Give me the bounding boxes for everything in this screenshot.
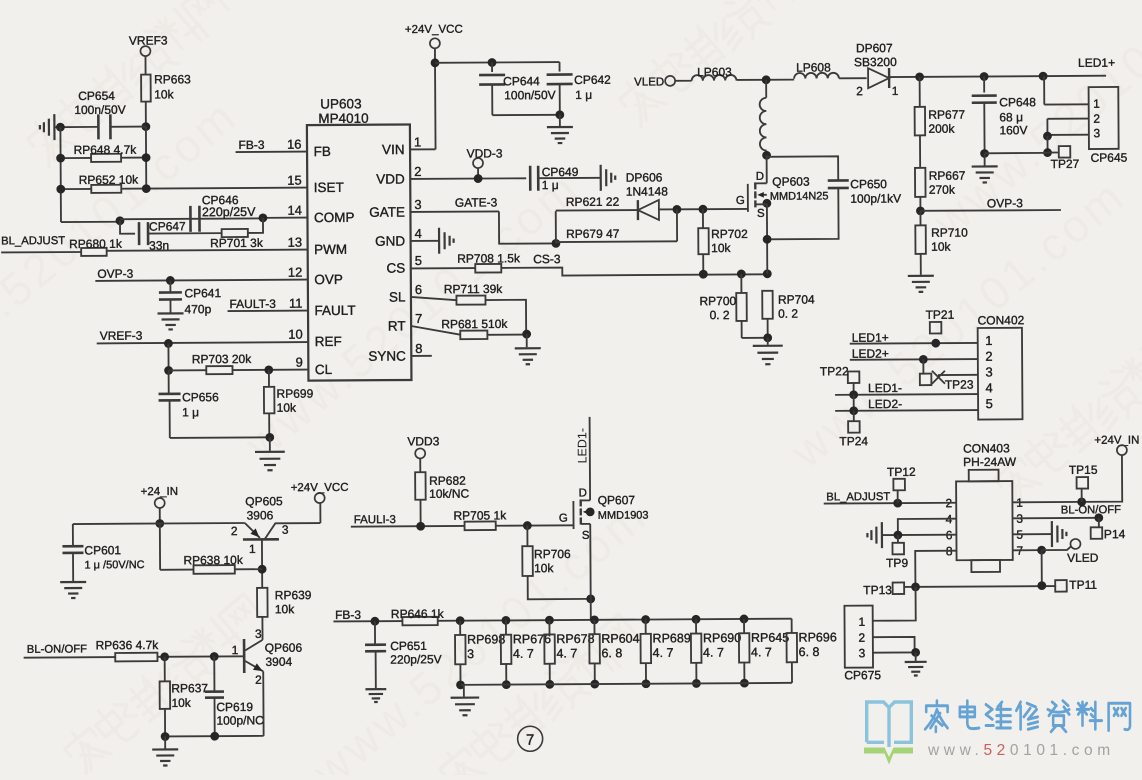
svg-text:TP22: TP22: [820, 364, 849, 378]
svg-text:CON403: CON403: [963, 441, 1010, 455]
svg-text:DP606: DP606: [626, 170, 663, 184]
svg-text:QP605: QP605: [245, 494, 283, 508]
svg-text:SL: SL: [389, 290, 406, 305]
svg-text:10k/NC: 10k/NC: [429, 487, 469, 501]
svg-text:P14: P14: [1104, 527, 1126, 541]
svg-text:CP654: CP654: [78, 89, 115, 103]
svg-text:RP679 47: RP679 47: [566, 227, 620, 241]
svg-text:RP703 20k: RP703 20k: [192, 352, 252, 366]
svg-text:4. 7: 4. 7: [513, 647, 534, 661]
svg-text:S: S: [582, 530, 590, 542]
svg-text:RP681 510k: RP681 510k: [441, 317, 508, 331]
svg-text:2: 2: [1093, 112, 1100, 126]
svg-text:VREF-3: VREF-3: [100, 329, 143, 343]
svg-text:BL_ADJUST: BL_ADJUST: [826, 491, 890, 503]
svg-text:CL: CL: [315, 362, 333, 377]
svg-text:100p/1kV: 100p/1kV: [850, 191, 901, 205]
svg-text:14: 14: [287, 203, 302, 218]
svg-text:RP680 1k: RP680 1k: [69, 237, 123, 251]
svg-text:10k: 10k: [171, 696, 191, 710]
svg-text:1: 1: [858, 615, 865, 629]
svg-text:RP706: RP706: [534, 547, 571, 561]
svg-text:RP698: RP698: [467, 632, 505, 646]
svg-text:S: S: [757, 208, 765, 220]
svg-text:D: D: [579, 487, 587, 499]
svg-text:RT: RT: [388, 319, 406, 334]
svg-text:10k: 10k: [711, 241, 731, 255]
svg-text:3: 3: [467, 647, 474, 661]
svg-text:100n/50V: 100n/50V: [74, 103, 125, 117]
svg-text:CP619: CP619: [216, 700, 253, 714]
svg-text:RP699: RP699: [276, 387, 313, 401]
svg-text:8: 8: [415, 341, 422, 356]
svg-text:RP690: RP690: [703, 631, 741, 645]
svg-text:4. 7: 4. 7: [556, 646, 577, 660]
svg-text:6: 6: [415, 282, 422, 297]
svg-text:TP27: TP27: [1051, 157, 1080, 171]
svg-text:PWM: PWM: [314, 242, 347, 257]
svg-text:MP4010: MP4010: [318, 111, 368, 126]
svg-text:100n/50V: 100n/50V: [504, 88, 555, 102]
svg-text:2: 2: [856, 84, 863, 98]
svg-text:CP656: CP656: [182, 390, 219, 404]
svg-text:200k: 200k: [928, 122, 955, 136]
svg-text:RP696: RP696: [798, 630, 836, 644]
svg-text:CP642: CP642: [574, 73, 611, 87]
svg-text:RP711 39k: RP711 39k: [444, 282, 504, 296]
svg-text:1 μ: 1 μ: [575, 88, 592, 102]
svg-text:RP701 3k: RP701 3k: [210, 236, 264, 250]
svg-text:UP603: UP603: [320, 96, 361, 111]
svg-text:QP606: QP606: [265, 641, 303, 655]
svg-text:GATE: GATE: [369, 205, 405, 220]
svg-text:1 μ /50V/NC: 1 μ /50V/NC: [84, 559, 144, 571]
svg-text:LP608: LP608: [796, 60, 831, 74]
svg-text:10k: 10k: [534, 561, 554, 575]
svg-text:CP649: CP649: [542, 165, 579, 179]
svg-text:1: 1: [985, 333, 992, 348]
svg-text:QP607: QP607: [598, 493, 636, 507]
svg-text:RP636 4.7k: RP636 4.7k: [96, 638, 160, 652]
svg-text:3: 3: [414, 197, 421, 212]
svg-text:2: 2: [414, 164, 421, 179]
svg-text:2: 2: [985, 349, 992, 364]
svg-text:1: 1: [232, 643, 239, 657]
svg-text:CP651: CP651: [390, 639, 427, 653]
svg-text:LP603: LP603: [697, 65, 732, 79]
svg-text:15: 15: [287, 173, 302, 188]
svg-text:3: 3: [1093, 126, 1100, 140]
svg-text:+24V_VCC: +24V_VCC: [291, 482, 349, 494]
svg-text:SB3200: SB3200: [854, 55, 897, 69]
svg-text:VIN: VIN: [382, 142, 405, 157]
svg-text:+24V_VCC: +24V_VCC: [405, 24, 463, 36]
svg-text:5: 5: [986, 396, 993, 411]
svg-text:3906: 3906: [247, 508, 274, 522]
svg-text:RP710: RP710: [931, 226, 968, 240]
svg-text:OVP: OVP: [314, 272, 343, 287]
svg-text:VLED: VLED: [634, 76, 664, 88]
svg-text:+24V_IN: +24V_IN: [1094, 435, 1139, 447]
svg-text:4: 4: [985, 380, 992, 395]
svg-text:FAULI-3: FAULI-3: [354, 514, 396, 526]
svg-text:G: G: [736, 195, 745, 207]
svg-text:2: 2: [858, 631, 865, 645]
svg-text:3: 3: [985, 365, 992, 380]
svg-text:RP667: RP667: [929, 169, 966, 183]
svg-text:SYNC: SYNC: [368, 349, 406, 364]
svg-text:TP23: TP23: [945, 378, 974, 392]
svg-text:LED2+: LED2+: [852, 347, 889, 361]
svg-text:RP637: RP637: [171, 681, 208, 695]
svg-text:CP641: CP641: [184, 286, 221, 300]
svg-text:www.520101.com: www.520101.com: [927, 742, 1115, 759]
svg-text:1: 1: [414, 134, 421, 149]
svg-text:3: 3: [859, 646, 866, 660]
svg-text:RP646 1k: RP646 1k: [391, 607, 445, 621]
svg-text:CP647: CP647: [149, 219, 186, 233]
svg-text:RP648 4.7k: RP648 4.7k: [74, 143, 138, 157]
svg-text:CP650: CP650: [850, 177, 887, 191]
svg-text:MMD1903: MMD1903: [598, 510, 649, 522]
svg-text:BL-ON/OFF: BL-ON/OFF: [1061, 504, 1121, 516]
svg-text:VLED: VLED: [1067, 551, 1099, 565]
svg-text:RP702: RP702: [711, 227, 748, 241]
svg-text:CP644: CP644: [503, 74, 540, 88]
svg-text:RP705 1k: RP705 1k: [453, 508, 507, 522]
svg-text:CP648: CP648: [999, 95, 1036, 109]
svg-text:0. 2: 0. 2: [710, 308, 730, 322]
svg-text:COMP: COMP: [314, 210, 355, 225]
svg-text:FAULT-3: FAULT-3: [229, 297, 276, 311]
svg-text:1: 1: [1093, 97, 1100, 111]
svg-text:0. 2: 0. 2: [778, 307, 798, 321]
svg-text:FAULT: FAULT: [314, 303, 355, 318]
svg-text:GND: GND: [375, 234, 405, 249]
svg-text:10k: 10k: [277, 401, 297, 415]
svg-text:TP24: TP24: [839, 434, 868, 448]
svg-text:16: 16: [287, 137, 302, 152]
svg-text:BL-ON/OFF: BL-ON/OFF: [27, 643, 87, 655]
svg-text:RP604: RP604: [601, 632, 639, 646]
svg-text:LED1+: LED1+: [1078, 56, 1115, 70]
svg-text:VDD: VDD: [376, 172, 405, 187]
svg-text:10k: 10k: [275, 602, 295, 616]
svg-text:4. 7: 4. 7: [653, 646, 674, 660]
svg-text:CS: CS: [386, 261, 405, 276]
svg-text:MMD14N25: MMD14N25: [770, 190, 829, 202]
svg-text:13: 13: [288, 235, 303, 250]
svg-text:CP675: CP675: [844, 668, 881, 682]
svg-text:10k: 10k: [154, 87, 174, 101]
svg-text:VDD3: VDD3: [407, 434, 439, 448]
svg-text:ISET: ISET: [314, 180, 344, 195]
svg-text:LED2-: LED2-: [868, 397, 902, 411]
svg-text:12: 12: [288, 265, 303, 280]
svg-text:3: 3: [255, 627, 262, 641]
svg-text:RP621 22: RP621 22: [566, 195, 620, 209]
svg-text:4. 7: 4. 7: [751, 645, 772, 659]
svg-text:REF: REF: [315, 334, 342, 349]
svg-text:68 μ: 68 μ: [999, 110, 1023, 124]
svg-text:1: 1: [249, 542, 256, 556]
svg-text:CP645: CP645: [1091, 151, 1128, 165]
svg-text:RP652 10k: RP652 10k: [79, 173, 139, 187]
svg-text:FB-3: FB-3: [335, 608, 361, 622]
svg-text:+24_IN: +24_IN: [141, 486, 178, 498]
svg-text:RP708 1.5k: RP708 1.5k: [457, 251, 521, 265]
svg-text:6. 8: 6. 8: [601, 646, 622, 660]
svg-text:100p/NC: 100p/NC: [216, 713, 264, 727]
svg-text:RP700: RP700: [699, 294, 736, 308]
svg-text:VREF3: VREF3: [129, 33, 168, 47]
svg-text:VDD-3: VDD-3: [467, 146, 503, 160]
svg-text:RP677: RP677: [928, 108, 965, 122]
svg-text:CS-3: CS-3: [533, 252, 561, 266]
svg-text:1: 1: [892, 84, 899, 98]
svg-text:QP603: QP603: [772, 175, 810, 189]
svg-text:4: 4: [415, 226, 422, 241]
svg-text:270k: 270k: [929, 183, 956, 197]
svg-text:10: 10: [288, 327, 303, 342]
svg-text:TP13: TP13: [863, 583, 892, 597]
svg-text:10k: 10k: [931, 240, 951, 254]
svg-text:G: G: [559, 513, 568, 525]
svg-text:RP645: RP645: [751, 631, 789, 645]
svg-text:160V: 160V: [999, 123, 1027, 137]
svg-text:11: 11: [289, 296, 303, 311]
svg-text:LED1-: LED1-: [575, 428, 589, 464]
svg-text:TP12: TP12: [887, 465, 916, 479]
svg-text:FB-3: FB-3: [238, 138, 264, 152]
svg-text:4. 7: 4. 7: [703, 646, 724, 660]
svg-text:TP11: TP11: [1069, 578, 1097, 592]
svg-text:TP21: TP21: [926, 308, 955, 322]
svg-text:TP9: TP9: [886, 556, 908, 570]
svg-text:BL_ADJUST: BL_ADJUST: [1, 235, 65, 247]
svg-text:RP638 10k: RP638 10k: [183, 553, 243, 567]
svg-text:220p/25V: 220p/25V: [390, 652, 441, 666]
svg-text:2: 2: [255, 673, 262, 687]
svg-text:CP601: CP601: [84, 543, 121, 557]
svg-text:3904: 3904: [265, 655, 292, 669]
svg-text:LED1-: LED1-: [868, 381, 902, 395]
svg-text:GATE-3: GATE-3: [455, 195, 498, 209]
svg-text:1N4148: 1N4148: [626, 184, 668, 198]
svg-text:7: 7: [526, 732, 534, 749]
svg-text:RP663: RP663: [154, 72, 191, 86]
svg-text:2: 2: [231, 524, 238, 538]
svg-text:DP607: DP607: [856, 41, 893, 55]
svg-text:9: 9: [296, 355, 303, 370]
svg-text:FB: FB: [314, 144, 331, 159]
svg-text:OVP-3: OVP-3: [987, 196, 1023, 210]
svg-text:TP15: TP15: [1069, 463, 1098, 477]
svg-text:5: 5: [415, 253, 422, 268]
svg-text:1 μ: 1 μ: [542, 178, 559, 192]
svg-text:3: 3: [282, 523, 289, 537]
svg-text:OVP-3: OVP-3: [97, 267, 133, 281]
svg-text:7: 7: [415, 311, 422, 326]
svg-text:CON402: CON402: [978, 313, 1025, 327]
svg-text:6. 8: 6. 8: [799, 645, 820, 659]
svg-text:RP639: RP639: [275, 588, 312, 602]
svg-text:470p: 470p: [184, 302, 211, 316]
svg-text:RP689: RP689: [652, 631, 690, 645]
svg-text:PH-24AW: PH-24AW: [963, 455, 1017, 469]
svg-text:220p/25V: 220p/25V: [202, 205, 256, 219]
svg-text:1 μ: 1 μ: [182, 405, 199, 419]
svg-text:D: D: [756, 171, 764, 183]
svg-text:RP704: RP704: [778, 293, 815, 307]
